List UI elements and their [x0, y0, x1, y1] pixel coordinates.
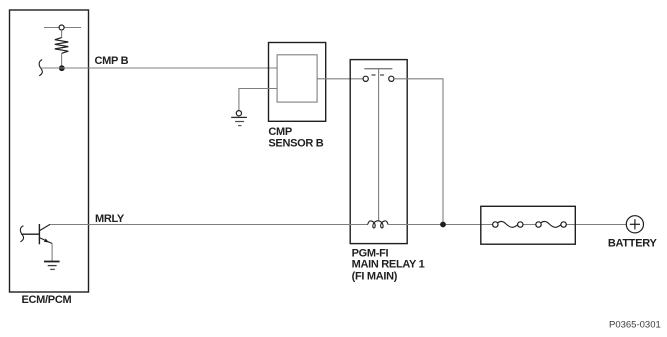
wire fuse F2 to battery	[564, 224, 626, 226]
svg-text:MRLY: MRLY	[95, 213, 125, 225]
node: ground terminal circle	[236, 111, 241, 116]
relay contact dashed blade	[372, 74, 385, 76]
transistor Q emitter with arrow	[40, 238, 53, 244]
relay U (PGM-FI main relay 1) box	[350, 60, 407, 244]
wire: relay armature link to coil	[378, 69, 380, 221]
battery terminal	[626, 216, 643, 233]
wire between fuse F1 and F2	[521, 224, 538, 226]
wire: sensor ground lead	[239, 89, 277, 112]
resistor (pull-up inside ECM)	[55, 38, 69, 54]
connector break symbol (CMP B)	[39, 60, 42, 76]
node: CMP B junction dot	[59, 65, 65, 71]
svg-text:PGM-FI: PGM-FI	[352, 247, 389, 259]
ground (sensor)	[231, 116, 247, 118]
svg-text:ECM/PCM: ECM/PCM	[22, 294, 72, 306]
node: junction dot at relay output	[440, 222, 446, 228]
wire: resistor top lead	[61, 30, 63, 38]
wire CMP B	[41, 67, 277, 69]
wire MRLY (right of coil to fuse F1)	[388, 224, 495, 226]
svg-text:MAIN RELAY 1: MAIN RELAY 1	[352, 259, 425, 271]
fuse F2 element	[541, 221, 561, 227]
fuse F1 element	[498, 221, 518, 227]
wire: relay output down to MRLY node	[394, 79, 443, 225]
fuse box	[481, 206, 576, 244]
battery plus sign	[630, 223, 640, 225]
wire: sensor output to relay	[317, 78, 363, 80]
svg-text:CMP B: CMP B	[95, 55, 129, 67]
relay coil	[368, 221, 388, 228]
relay armature bar	[364, 68, 392, 70]
connector break symbol (MRLY)	[20, 226, 23, 242]
svg-text:CMP: CMP	[268, 126, 292, 138]
wire MRLY (left of coil)	[50, 224, 368, 226]
CMP sensor outer box	[269, 43, 326, 122]
svg-text:BATTERY: BATTERY	[608, 237, 658, 249]
CMP sensor inner box	[277, 55, 317, 102]
wire: pull-up top rail	[44, 27, 81, 29]
svg-text:(FI MAIN): (FI MAIN)	[352, 270, 398, 282]
svg-text:SENSOR B: SENSOR B	[268, 138, 323, 150]
transistor Q collector	[40, 224, 50, 230]
transistor Q (ECM output) base wire	[21, 233, 39, 235]
wire: resistor bottom lead	[61, 54, 63, 69]
svg-text:P0365-0301: P0365-0301	[609, 320, 661, 331]
ECM/PCM box	[10, 10, 89, 292]
ground (transistor emitter)	[44, 261, 60, 263]
node: pull-up open terminal	[59, 25, 64, 30]
relay contact terminal left	[363, 76, 368, 81]
fuse F2 terminals	[536, 222, 541, 227]
wire: emitter to ground	[51, 244, 53, 261]
relay contact terminal right	[389, 76, 394, 81]
transistor Q base bar	[38, 224, 40, 244]
fuse F1 terminals	[493, 222, 498, 227]
